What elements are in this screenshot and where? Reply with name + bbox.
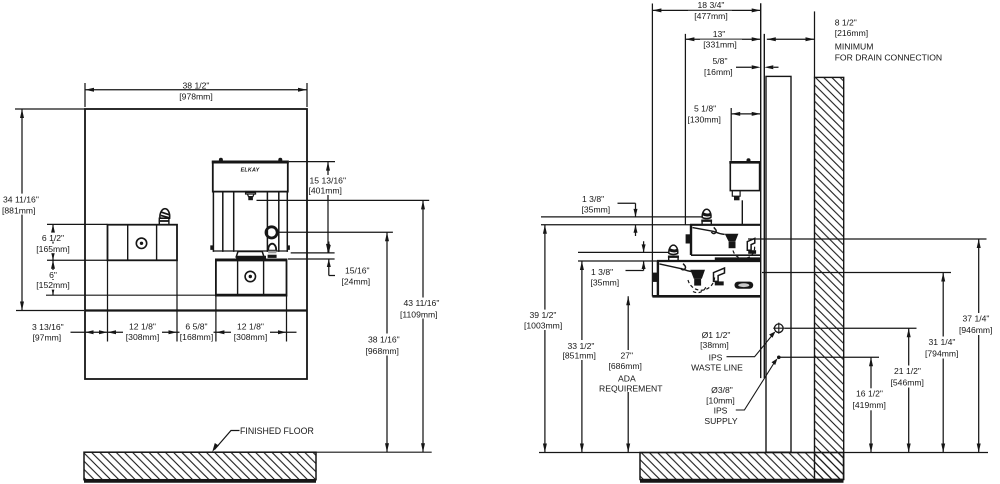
floor line (left view) (84, 451, 432, 453)
lower right unit dividers (238, 260, 264, 295)
upper unit push button (side) (686, 234, 691, 243)
dim 1 3/8 upper: extension lines (541, 217, 702, 225)
dim 37 1/4 text (961, 313, 999, 335)
upper unit trap dashed (733, 246, 755, 259)
svg-text:6 1/2": 6 1/2" (42, 233, 64, 243)
svg-text:MINIMUM: MINIMUM (835, 42, 874, 52)
svg-text:[168mm]: [168mm] (180, 332, 213, 342)
dim 33 1/2 text (562, 340, 602, 360)
dim 21 1/2 line (908, 328, 910, 452)
svg-text:[881mm]: [881mm] (2, 206, 35, 216)
svg-text:[477mm]: [477mm] (694, 11, 727, 21)
dim 15 13/16 extension line (top) (289, 161, 335, 163)
lower unit drain (side) (690, 270, 705, 279)
svg-text:8 1/2": 8 1/2" (835, 17, 857, 27)
dim 5/8 leaders and arrows (736, 66, 779, 68)
dim 5 1/8 extension line (730, 108, 732, 161)
back panel line A (760, 3, 762, 378)
svg-text:Ø3/8": Ø3/8" (711, 385, 733, 395)
dim 6 1/2 ticks (47, 224, 108, 260)
dim 43 11/16 arrows (421, 200, 425, 452)
svg-text:27": 27" (621, 351, 634, 361)
svg-text:[216mm]: [216mm] (835, 28, 868, 38)
dim 16 1/2 line (870, 357, 872, 452)
svg-text:5/8": 5/8" (713, 56, 728, 66)
upper unit elbow (747, 238, 755, 250)
upper unit front face (690, 225, 692, 255)
svg-text:18 3/4": 18 3/4" (698, 0, 725, 10)
back panel line B (763, 34, 765, 378)
upper unit drain (side) (725, 234, 739, 242)
svg-text:[851mm]: [851mm] (563, 351, 596, 361)
upper unit basin slope (693, 228, 725, 235)
lower unit (side): top (657, 260, 761, 262)
floor line (right view) (539, 452, 988, 454)
svg-text:16 1/2": 16 1/2" (856, 389, 883, 399)
dim 38 1/2 line (85, 89, 307, 91)
pedestal front line (741, 200, 743, 225)
svg-text:6 5/8": 6 5/8" (185, 321, 207, 331)
dim 31 1/4 line (942, 273, 944, 453)
legs bottom line (213, 250, 287, 252)
svg-text:REQUIREMENT: REQUIREMENT (599, 383, 663, 393)
bottom chained dimension line (71, 331, 297, 333)
svg-text:6": 6" (49, 270, 57, 280)
svg-text:[968mm]: [968mm] (366, 346, 399, 356)
bottle filler legs (213, 192, 287, 252)
basin lid between units (236, 252, 264, 257)
lower right fountain unit body (216, 259, 287, 295)
svg-text:FINISHED FLOOR: FINISHED FLOOR (240, 426, 314, 436)
dim 34 11/16 text (2, 194, 44, 215)
extension line lower unit top (288, 258, 335, 260)
svg-text:37 1/4": 37 1/4" (963, 314, 990, 324)
floor slab bottom thick edge (right) (640, 479, 844, 482)
svg-text:[794mm]: [794mm] (925, 348, 958, 358)
extension line 16 1/2 (supply) (781, 356, 880, 358)
svg-text:[130mm]: [130mm] (688, 115, 721, 125)
svg-text:[16mm]: [16mm] (704, 67, 733, 77)
lower unit bubbler supply hook (681, 264, 686, 270)
lower unit push button (side) (653, 273, 658, 282)
svg-text:12 1/8": 12 1/8" (129, 321, 156, 331)
svg-text:Ø1 1/2": Ø1 1/2" (702, 330, 731, 340)
dim 6 text (34, 270, 73, 290)
svg-text:33 1/2": 33 1/2" (568, 341, 595, 351)
dim 6 1/2 line (52, 224, 54, 260)
bottle filler spout (246, 192, 256, 194)
dim 18 3/4 extension line (front of lower button) (651, 4, 653, 297)
dim 38 1/16 arrows (385, 232, 389, 452)
dim 34 11/16 line (21, 109, 23, 311)
svg-text:[401mm]: [401mm] (309, 186, 342, 196)
upper unit bubbler (side) (702, 220, 711, 224)
upper unit bubbler (front) (268, 244, 276, 251)
bottle filler ELKAY box (front) (213, 162, 288, 192)
dim 13 arrows (685, 37, 760, 41)
svg-text:ELKAY: ELKAY (241, 167, 260, 173)
svg-text:1 3/8": 1 3/8" (591, 267, 613, 277)
dim 18 3/4 text (688, 1, 732, 21)
dim 18 3/4 arrows (652, 8, 760, 12)
svg-text:15 13/16": 15 13/16" (310, 176, 347, 186)
dim 38 1/2 arrows (85, 88, 307, 92)
lower unit front face (657, 261, 659, 296)
svg-text:38 1/16": 38 1/16" (368, 335, 400, 345)
left fountain unit body (108, 225, 178, 261)
dim 15/16 arrows and leader (329, 242, 335, 276)
svg-text:IPS: IPS (714, 406, 728, 416)
upper unit bubbler supply hook (712, 227, 717, 233)
extension line 21 1/2 (waste line) (785, 327, 917, 329)
dim 38 1/2 text (172, 80, 221, 100)
svg-text:[946mm]: [946mm] (959, 325, 992, 335)
bottom dim arrows (85, 330, 287, 334)
dim 27 line (627, 296, 629, 452)
svg-text:FOR DRAIN CONNECTION: FOR DRAIN CONNECTION (835, 52, 942, 62)
left unit extension lines down (108, 260, 178, 341)
floor slab (right view) (640, 453, 844, 480)
waste leader (727, 336, 773, 357)
lower right unit push button (245, 271, 255, 281)
svg-text:ADA: ADA (618, 374, 636, 384)
svg-text:39 1/2": 39 1/2" (530, 310, 557, 320)
dim 6 1/2 text (34, 233, 73, 254)
waste line symbol (775, 324, 784, 333)
svg-text:SUPPLY: SUPPLY (704, 416, 738, 426)
dim 8 1/2 extension line (hatch wall face) (814, 11, 816, 77)
floor slab bottom thick edge (84, 479, 316, 482)
svg-text:5 1/8": 5 1/8" (694, 104, 716, 114)
svg-text:[10mm]: [10mm] (706, 395, 735, 405)
dim 15 13/16 line (327, 162, 329, 253)
svg-text:[165mm]: [165mm] (36, 244, 69, 254)
lower unit basin slope (659, 264, 692, 272)
left unit bubbler dome (160, 209, 170, 219)
lower unit bottom (652, 295, 760, 298)
lower unit vent slot (735, 282, 754, 289)
dim 43 11/16 line (422, 200, 424, 452)
left unit panel divider lines (128, 225, 157, 261)
upper unit bubbler button (front) (266, 227, 277, 238)
svg-text:[35mm]: [35mm] (591, 277, 620, 287)
dim 12 1/8 (right) text (231, 321, 270, 341)
svg-text:[331mm]: [331mm] (703, 39, 736, 49)
dim 8 1/2 line (767, 38, 815, 40)
dim 5 1/8 line (731, 113, 761, 115)
upper unit (side): top (690, 224, 761, 226)
svg-text:IPS: IPS (709, 352, 723, 362)
dim 1 3/8 lower: extension lines (578, 252, 669, 261)
svg-text:[24mm]: [24mm] (342, 276, 371, 286)
dim 1 3/8 upper: leader and arrows (618, 203, 636, 236)
wall panel outline (85, 109, 307, 379)
dim 6 arrows (51, 260, 55, 295)
lower unit elbow (714, 268, 725, 281)
dim 1 3/8 lower: leader and arrows (626, 241, 644, 270)
svg-text:[686mm]: [686mm] (609, 361, 642, 371)
dim 21 1/2 text (893, 366, 931, 388)
supply leader (736, 362, 775, 411)
leg mounting feet (210, 245, 290, 250)
svg-text:[97mm]: [97mm] (33, 332, 62, 342)
svg-text:[152mm]: [152mm] (36, 280, 69, 290)
stud wall hatched section (815, 77, 844, 479)
dim 13 text (700, 29, 742, 49)
extension line from button (38 1/16) (278, 231, 393, 233)
left unit bubbler base (159, 218, 169, 225)
bottle filler box tab (747, 158, 751, 161)
dim 34 11/16 bottom tick (16, 310, 84, 312)
dim 38 1/2 extension lines (85, 83, 307, 107)
dim 39 1/2 text (526, 310, 566, 330)
extension line 31 1/4 (lower rim through wall) (762, 272, 951, 274)
svg-text:43 11/16": 43 11/16" (404, 298, 440, 308)
svg-text:[38mm]: [38mm] (700, 340, 729, 350)
floor slab (left view) (84, 452, 316, 480)
dim 39 1/2 line (544, 225, 546, 453)
bottle filler box top thick (729, 161, 760, 164)
dim 43 11/16 text (402, 298, 445, 319)
dark bar lower basin back edge (715, 257, 760, 260)
dim 31 1/4 text (927, 337, 965, 359)
svg-text:12 1/8": 12 1/8" (237, 321, 264, 331)
dim 6 5/8 text (180, 321, 214, 341)
dim 5 1/8 arrows (731, 112, 761, 116)
svg-text:[1109mm]: [1109mm] (400, 309, 438, 319)
ELKAY box mounting tabs (219, 158, 282, 161)
dim 13 line (685, 38, 760, 40)
dim 16 1/2 text (855, 388, 893, 410)
extension line from spout (43 11/16) (257, 199, 430, 201)
dim 6 line (52, 260, 54, 295)
dim 38 1/16 line (386, 232, 388, 452)
dim 13 extension line (front of upper button) (684, 34, 686, 225)
svg-text:[419mm]: [419mm] (853, 400, 886, 410)
svg-text:[546mm]: [546mm] (891, 377, 924, 387)
finished floor leader (215, 431, 240, 450)
dim 34 11/16 top tick (15, 108, 85, 110)
svg-text:[308mm]: [308mm] (126, 332, 159, 342)
svg-text:15/16": 15/16" (345, 265, 370, 275)
unit bottom reference line y=295 (46, 294, 287, 296)
dim 18 3/4 line (652, 9, 760, 11)
lower right unit top/bottom thick edges (216, 259, 287, 261)
lower right unit extension lines down (216, 296, 287, 342)
left unit push button (136, 238, 146, 248)
lower unit bubbler (side) (669, 256, 678, 260)
finished wall section (766, 76, 791, 452)
svg-text:31 1/4": 31 1/4" (929, 337, 956, 347)
bottle filler nozzle (side) (732, 191, 740, 197)
dim 12 1/8 (left) text (123, 321, 162, 341)
bottle filler box (side) (730, 162, 759, 191)
svg-text:WASTE LINE: WASTE LINE (691, 363, 743, 373)
dim 15 13/16 text (308, 175, 352, 195)
svg-text:1 3/8": 1 3/8" (582, 194, 604, 204)
dim 15 13/16 arrows (326, 162, 330, 253)
svg-text:3 13/16": 3 13/16" (32, 322, 64, 332)
dim 37 1/4 line (978, 239, 980, 453)
dim 38 1/16 text (365, 334, 407, 356)
dim 27 ADA text (608, 350, 650, 392)
svg-text:13": 13" (713, 29, 726, 39)
svg-text:[35mm]: [35mm] (582, 205, 611, 215)
ELKAY box top edge thick (212, 161, 289, 164)
extension line 37 1/4 (upper rim through wall) (748, 238, 987, 240)
svg-text:[1003mm]: [1003mm] (524, 321, 562, 331)
svg-text:34 11/16": 34 11/16" (3, 194, 39, 204)
upper unit bottom lines (691, 254, 761, 256)
dim 8 1/2 arrows (767, 37, 815, 41)
svg-text:21 1/2": 21 1/2" (894, 366, 921, 376)
dim 6 1/2 arrows (51, 224, 55, 260)
svg-text:[978mm]: [978mm] (179, 92, 212, 102)
dim 34 11/16 arrows (20, 109, 24, 311)
panel interior bottom line (34 11/16 reference) (85, 309, 307, 311)
dim 33 1/2 line (581, 261, 583, 453)
extension line basin lid top (291, 252, 335, 254)
lower unit trap dashed (688, 277, 715, 293)
svg-text:38 1/2": 38 1/2" (183, 81, 210, 91)
svg-text:[308mm]: [308mm] (234, 332, 267, 342)
supply point (777, 356, 781, 360)
